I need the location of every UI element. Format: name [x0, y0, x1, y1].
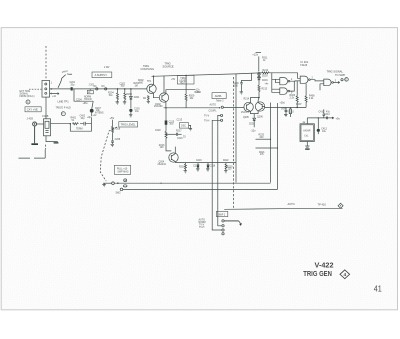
svg-text:R213: R213: [262, 89, 268, 91]
label Q202: [154, 104, 163, 108]
capacitor C217: [193, 163, 200, 172]
svg-text:LINE TP1: LINE TP1: [58, 100, 70, 104]
ground R205: [123, 102, 127, 104]
NAND gate IC401c: [300, 76, 310, 83]
label R214: [244, 99, 250, 101]
capacitor C201 (blob): [70, 82, 76, 90]
svg-text:LVL: LVL: [305, 136, 310, 138]
label J201: [89, 67, 110, 87]
wire auto-coupl line: [164, 104, 220, 113]
svg-text:Table 2: Table 2: [216, 100, 224, 102]
wire gates bottom rail: [281, 107, 306, 111]
switch contact TV-H: [204, 119, 223, 122]
terminal fb1: [112, 182, 115, 185]
terminal out 1: [341, 79, 343, 81]
resistor R220 tie: [256, 134, 271, 139]
svg-text:41: 41: [374, 283, 382, 293]
test point diamond TP410: [338, 203, 343, 208]
svg-text:OSC: OSC: [181, 126, 186, 128]
terminal fb2: [116, 188, 123, 195]
switch SWP2 contact 3: [222, 229, 224, 231]
svg-text:Q206: Q206: [257, 116, 263, 118]
wire top rail: [152, 73, 260, 76]
resistor R212: [262, 70, 269, 74]
svg-text:TRIG'D F-HLD: TRIG'D F-HLD: [56, 107, 72, 109]
footer diamond 4: [340, 270, 350, 279]
gate input stub A2: [276, 79, 280, 82]
label TP201: [147, 81, 152, 83]
terminal J403: [33, 122, 37, 126]
wire: dashed input line to J201: [45, 46, 47, 81]
boxed unit AX HR: [300, 122, 314, 142]
resistor R406: [290, 81, 299, 107]
capacitor C414 on wire: [324, 114, 330, 120]
resistor R218: [179, 163, 187, 173]
label C220: [155, 130, 161, 132]
svg-text:COUPLING: COUPLING: [141, 67, 155, 71]
capacitor C210: [284, 107, 294, 116]
label 2SC371: [241, 112, 250, 114]
wire rect edge outer: [277, 103, 279, 189]
svg-text:TV-V: TV-V: [204, 116, 210, 118]
label switch positions: [199, 219, 206, 230]
transistor Q205: [244, 102, 254, 113]
node coupl: [219, 106, 223, 108]
capacitor C209: [233, 73, 252, 94]
svg-text:TP 410: TP 410: [318, 203, 327, 207]
label D205: [265, 84, 270, 86]
svg-text:10u: 10u: [135, 111, 140, 113]
node main1: [117, 88, 119, 90]
wire SWP2 stub: [218, 209, 222, 225]
wire connector to fuse: [45, 97, 47, 119]
svg-text:C217: C217: [193, 165, 199, 167]
wire fuse to termination: [51, 123, 71, 125]
label LINE TP1: [58, 100, 70, 104]
svg-text:2 MV: 2 MV: [104, 67, 110, 69]
switch contact S1a: [96, 88, 98, 90]
wire auto out: [224, 208, 342, 209]
svg-text:R218: R218: [179, 166, 185, 168]
svg-text:+5V: +5V: [110, 116, 115, 120]
wire to Q205 collector: [251, 98, 260, 103]
ground (bold): [31, 143, 38, 145]
wire osc feed: [165, 108, 167, 120]
diode D201: [130, 89, 141, 108]
wire gate feed top: [259, 72, 262, 74]
svg-text:AX/HR: AX/HR: [303, 130, 310, 133]
wire: leader to connector pin 2: [29, 88, 42, 90]
wire TV-V drop: [218, 115, 221, 209]
svg-text:C218: C218: [210, 165, 216, 167]
svg-text:DC: DC: [102, 86, 106, 88]
fuse/relay F401: [44, 119, 51, 136]
svg-text:C206: C206: [115, 139, 121, 141]
ground arrow SWP2: [239, 221, 243, 226]
wire rect edge inner: [270, 103, 272, 183]
svg-text:Q205: Q205: [243, 117, 249, 119]
wire term up stub: [92, 115, 98, 124]
svg-text:C204: C204: [76, 99, 82, 101]
svg-text:+5V: +5V: [171, 79, 176, 81]
wire terminal to ground: [34, 126, 36, 143]
svg-text:AUTO: AUTO: [210, 104, 217, 107]
svg-text:2SC371: 2SC371: [241, 112, 250, 114]
resistor R209: [185, 75, 195, 107]
wire B out up: [290, 81, 295, 91]
svg-text:4: 4: [343, 272, 346, 278]
switch contact S1b: [105, 88, 107, 90]
leader 4MHz: [58, 70, 72, 87]
wire main input line: [50, 88, 147, 90]
svg-text:+12v: +12v: [252, 53, 258, 57]
capacitor C412 (electrolytic): [317, 118, 328, 134]
svg-text:BIAS: BIAS: [195, 91, 201, 94]
label NORM TRIGD: [84, 97, 92, 102]
svg-text:R214: R214: [244, 99, 250, 101]
resistor R401: [71, 118, 79, 125]
node rail Q1: [153, 76, 154, 77]
node main2: [124, 88, 126, 90]
label TRIGD F-HLD: [56, 107, 72, 109]
label R222: [196, 160, 229, 162]
boxed label PULL ADJ: [114, 165, 130, 174]
svg-text:2SC460: 2SC460: [154, 106, 163, 108]
note circle A: [26, 100, 30, 104]
ground OSC: [189, 125, 193, 130]
switch contact TV-V: [204, 114, 223, 117]
ground C203: [129, 115, 133, 117]
label C202: [120, 83, 126, 87]
wire to gate C top input: [269, 73, 300, 79]
label R407: [296, 104, 302, 106]
svg-text:TP1: TP1: [147, 81, 152, 83]
boxed label A SUPPLY: [92, 72, 112, 78]
svg-text:F488: F488: [42, 114, 48, 118]
svg-text:R217: R217: [176, 130, 182, 132]
svg-text:AC: AC: [94, 85, 98, 88]
svg-text:R212: R212: [263, 70, 269, 72]
diode D204: [258, 77, 269, 85]
switch SWP2 contact 4: [222, 233, 224, 235]
wire branch gate inputs: [272, 73, 280, 93]
transistor Q204: [169, 147, 178, 163]
resistor R412: [289, 107, 291, 117]
svg-text:FROM (FIG.1): FROM (FIG.1): [20, 96, 35, 98]
capacitor C410: [319, 109, 331, 118]
svg-text:TO SWP: TO SWP: [335, 73, 345, 77]
svg-text:TERM: TERM: [76, 129, 83, 131]
capacitor C215 (blob): [165, 120, 175, 125]
resistor R213: [258, 85, 268, 97]
node fb1 circle: [124, 179, 127, 182]
node AX supply: [318, 117, 319, 118]
label J403: [27, 116, 34, 120]
svg-text:A SUPPLY: A SUPPLY: [95, 73, 108, 77]
+5V feed R208 C206: [110, 116, 121, 147]
svg-text:-12v: -12v: [251, 129, 257, 133]
boxed label AMPL: [212, 93, 226, 103]
label Q205 Q206: [243, 116, 263, 118]
label TRIG COUPLING: [141, 64, 155, 71]
wire A out to C in: [290, 80, 300, 82]
svg-text:C219: C219: [196, 160, 202, 162]
svg-text:ADJ: ADJ: [180, 82, 184, 85]
label R210: [171, 79, 176, 81]
node fb1 right: [270, 139, 271, 140]
svg-text:+(5v): +(5v): [280, 103, 286, 105]
svg-text:R208: R208: [115, 128, 121, 130]
label IC401: [300, 60, 309, 67]
NAND gate IC401d: [324, 79, 334, 86]
node main3: [130, 88, 132, 90]
resistor R204: [108, 89, 119, 102]
resistor R221 tie: [256, 148, 278, 156]
node fb junction: [160, 183, 161, 184]
svg-text:D204: D204: [262, 80, 268, 82]
NAND gate IC401b: [280, 88, 290, 94]
diode D202: [249, 114, 256, 133]
wire terminal to fuse: [37, 123, 44, 125]
boxed label OSC: [179, 123, 188, 128]
svg-text:SWP 2: SWP 2: [218, 214, 226, 216]
label C208: [197, 91, 201, 94]
node fb2 right: [277, 147, 278, 148]
svg-text:TV-H: TV-H: [199, 227, 205, 229]
wire dashed diagonal: [100, 127, 117, 181]
svg-text:SIGNAL: SIGNAL: [20, 93, 29, 96]
boxed label TRIG LEVEL ADJUST: [177, 75, 194, 84]
svg-text:D201: D201: [134, 97, 140, 99]
svg-text:SW2: SW2: [116, 193, 122, 195]
svg-text:D203: D203: [262, 76, 268, 78]
svg-text:C410: C410: [319, 111, 325, 113]
gate D input 2: [320, 84, 324, 91]
capacitor C203 (electrolytic): [129, 109, 140, 115]
node term-in: [70, 123, 72, 125]
resistor Q1 emitter: [143, 96, 150, 104]
wire C out to D in: [310, 80, 324, 81]
wire feedback1: [114, 182, 270, 184]
svg-text:1M: 1M: [135, 86, 138, 88]
svg-text:C213: C213: [177, 120, 183, 122]
wire TV-H drop: [212, 120, 222, 230]
wire Q206 to gates rail: [265, 106, 287, 108]
wire fuse drop to left exit: [19, 145, 46, 159]
wire feedback2: [123, 188, 278, 190]
svg-text:SWP MAG: SWP MAG: [117, 171, 128, 174]
node rail R209: [185, 75, 186, 76]
wire +12V stack: [258, 56, 260, 71]
capacitor C216: [166, 130, 186, 140]
label AC DC coupling: [94, 85, 106, 88]
svg-text:CXY +VE: CXY +VE: [27, 108, 38, 112]
svg-text:R222: R222: [223, 160, 229, 162]
wire AX supply: [307, 116, 340, 120]
label bias adj: [195, 90, 201, 94]
transistor Q206: [254, 98, 265, 114]
label R203: [134, 83, 140, 87]
NAND gate IC401a: [280, 78, 290, 85]
boxed label TRIG LEVEL: [119, 122, 138, 127]
wire feedback1 start: [103, 182, 112, 184]
label EXT TRIG SIGNAL FROM: [20, 91, 35, 98]
wire right rail vertical: [235, 74, 237, 183]
ground AX: [305, 142, 309, 150]
node stack: [258, 72, 260, 74]
svg-text:74123: 74123: [300, 63, 308, 67]
resistor R216: [159, 125, 172, 151]
node collectors: [258, 97, 260, 99]
terminal out D: [345, 78, 349, 82]
label TP410: [318, 203, 327, 207]
transistor Q202: [159, 76, 195, 108]
svg-text:+66v: +66v: [83, 103, 89, 105]
svg-text:D202: D202: [249, 124, 255, 126]
label R202: [138, 80, 144, 84]
label C213: [177, 120, 183, 122]
wire coupl to Q205 base: [223, 107, 243, 109]
boxed label SWP2: [216, 211, 227, 216]
fuse symbol circle F: [61, 112, 65, 116]
wire trig out: [334, 81, 340, 83]
label TRIG SOURCE: [163, 62, 174, 69]
transistor Q201: [147, 76, 159, 98]
switch SWP2 contact 1: [222, 220, 224, 222]
svg-text:TRIG LEVEL: TRIG LEVEL: [121, 123, 137, 127]
switch SWP2 contact 2: [222, 225, 224, 227]
svg-text:J 403: J 403: [27, 116, 34, 120]
resistor R219: [224, 163, 233, 173]
wire SWP2 arm: [224, 220, 238, 222]
capacitor C218: [206, 163, 216, 172]
svg-text:R205: R205: [126, 94, 132, 96]
svg-text:AMPL: AMPL: [215, 94, 223, 98]
svg-text:PULL ×10: PULL ×10: [117, 167, 128, 170]
resistor R408: [305, 84, 315, 108]
node fb1 ellipse: [123, 185, 127, 187]
ground fuse: [54, 142, 59, 144]
svg-text:COUPL: COUPL: [209, 111, 218, 113]
svg-text:2SA234: 2SA234: [158, 163, 167, 166]
boxed label LF REJ: [87, 89, 93, 94]
wire osc bottom rail: [175, 162, 236, 164]
capacitor C402: [80, 116, 92, 126]
label AUTO: [288, 202, 295, 206]
svg-text:+5v: +5v: [336, 116, 341, 120]
wire dashed board edge: [233, 77, 235, 209]
resistor R205: [124, 89, 133, 102]
wire AX top stub: [306, 118, 308, 124]
wire termination bypass loop: [70, 124, 91, 132]
label pin7: [291, 78, 337, 95]
label +12V: [252, 53, 261, 57]
label F401: [42, 114, 48, 118]
ground feedback1: [102, 183, 106, 187]
wire stub pin3: [50, 93, 59, 99]
diode D203: [258, 73, 269, 78]
wire fuse bottom to ground: [46, 136, 58, 142]
svg-text:TV-H: TV-H: [204, 120, 210, 122]
svg-text:TRIG SIGNAL: TRIG SIGNAL: [327, 69, 344, 73]
svg-text:C220: C220: [155, 130, 161, 132]
label Q204: [158, 162, 167, 166]
trimpot R207: [90, 101, 104, 116]
connector J201: [42, 81, 53, 98]
ground R204: [116, 102, 120, 104]
node Q2 emitter: [165, 107, 166, 108]
svg-text:INTENS: INTENS: [95, 113, 104, 115]
svg-text:AUTO: AUTO: [288, 202, 295, 206]
label TRIG SIGNAL TO SWP: [327, 69, 346, 77]
svg-text:TRIG GEN: TRIG GEN: [303, 269, 332, 278]
label R211: [262, 58, 268, 63]
wire C204 branch: [74, 89, 93, 105]
label +(5v): [280, 103, 286, 105]
boxed label CXY +VE: [25, 107, 41, 112]
svg-text:SOURCE: SOURCE: [163, 65, 174, 69]
